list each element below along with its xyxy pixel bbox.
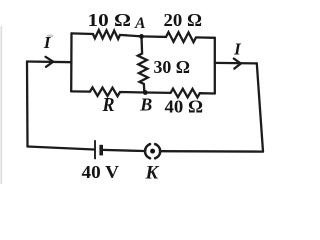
svg-text:K: K	[144, 162, 159, 183]
svg-text:10 Ω: 10 Ω	[88, 10, 132, 30]
svg-text:B: B	[139, 95, 152, 115]
svg-text:R: R	[102, 95, 115, 116]
svg-text:A: A	[134, 15, 145, 32]
svg-text:20 Ω: 20 Ω	[164, 10, 203, 30]
svg-text:40 Ω: 40 Ω	[165, 97, 204, 117]
svg-text:40 V: 40 V	[82, 162, 120, 182]
svg-text:30 Ω: 30 Ω	[154, 57, 191, 77]
